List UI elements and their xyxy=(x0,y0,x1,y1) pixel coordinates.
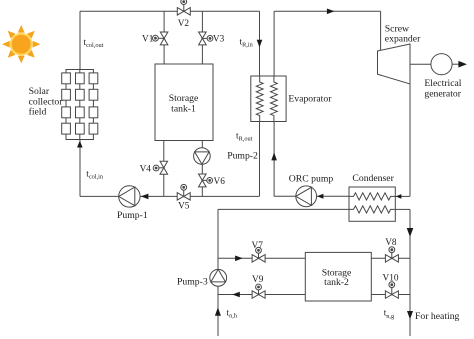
svg-text:For heating: For heating xyxy=(415,311,460,322)
electrical generator xyxy=(431,54,452,75)
collector header xyxy=(66,70,93,73)
svg-text:field: field xyxy=(29,107,47,118)
wire V1 branch xyxy=(163,11,165,64)
wire V10 line xyxy=(371,294,410,296)
svg-text:tank-2: tank-2 xyxy=(324,277,349,288)
pump-2 xyxy=(194,148,211,165)
wire collector return t_col,in xyxy=(79,140,81,197)
wire V4 drop xyxy=(163,141,165,197)
valve V7 xyxy=(252,247,265,262)
svg-text:tank-1: tank-1 xyxy=(171,103,196,114)
sun xyxy=(2,25,40,63)
wire collector riser t_col,out xyxy=(79,11,81,69)
svg-text:Condenser: Condenser xyxy=(352,173,394,184)
valve V9 xyxy=(252,284,265,298)
wire ORC pump line xyxy=(274,195,349,197)
svg-text:Pump-2: Pump-2 xyxy=(227,150,258,161)
condenser coil top xyxy=(349,193,395,200)
wire condenser bottom right stub xyxy=(395,208,410,210)
wire evaporator ORC vertical xyxy=(273,11,275,196)
pump-3 xyxy=(210,269,227,286)
svg-text:Storage: Storage xyxy=(169,93,199,104)
wire expander inlet xyxy=(380,11,382,50)
arrow flow up t_n,h xyxy=(215,307,221,315)
svg-text:V1: V1 xyxy=(142,35,154,45)
wire generator output xyxy=(452,63,460,65)
condenser box xyxy=(349,187,395,221)
svg-text:Pump-3: Pump-3 xyxy=(177,276,208,287)
svg-text:V6: V6 xyxy=(214,177,226,187)
collector footer xyxy=(66,134,93,139)
svg-text:Pump-1: Pump-1 xyxy=(117,210,148,221)
arrow flow up evaporator ORC line xyxy=(271,152,277,160)
valve V3 xyxy=(199,32,213,45)
svg-text:V2: V2 xyxy=(178,19,190,29)
valve V4 xyxy=(153,161,167,174)
wire water left vertical xyxy=(217,209,219,336)
wire ORC top line xyxy=(274,10,381,12)
arrow flow right on V7 line xyxy=(235,256,243,262)
condenser coil bottom xyxy=(349,206,395,213)
evaporator box xyxy=(251,76,286,122)
ORC pump xyxy=(296,186,317,207)
wire V9 line xyxy=(218,294,305,296)
wire top solar header xyxy=(80,10,260,12)
arrow generator output xyxy=(458,61,467,68)
arrow flow up into collector xyxy=(77,141,83,148)
arrow flow right on ORC top line xyxy=(327,9,335,15)
valve V5 xyxy=(177,184,190,200)
wire V3 branch xyxy=(201,11,203,64)
wire expander outlet to condenser xyxy=(409,84,411,197)
svg-text:ORC pump: ORC pump xyxy=(289,173,334,184)
storage tank-1 xyxy=(155,64,213,141)
arrow flow left on V9 line xyxy=(232,292,240,298)
arrow flow left into pump-1 xyxy=(141,194,149,200)
storage tank-2 xyxy=(305,252,371,301)
pump-1 xyxy=(119,186,140,207)
valve V10 xyxy=(385,282,398,298)
solar collector field panels xyxy=(62,73,98,134)
svg-text:Evaporator: Evaporator xyxy=(288,94,332,105)
wire water right vertical xyxy=(409,209,411,336)
collector column joins xyxy=(66,84,93,123)
wire generator shaft xyxy=(410,63,431,65)
screw expander xyxy=(378,44,411,84)
arrow flow down evaporator inlet xyxy=(257,40,263,48)
arrow flow left into ORC pump xyxy=(317,194,323,199)
evaporator coil right xyxy=(271,76,278,122)
arrow flow left into condenser xyxy=(396,194,402,199)
svg-text:generator: generator xyxy=(424,88,461,99)
svg-text:Solar: Solar xyxy=(29,86,50,97)
svg-text:Electrical: Electrical xyxy=(424,78,461,89)
wire condenser top right stub xyxy=(395,195,410,197)
wire solar bottom return xyxy=(80,195,260,197)
valve V2 xyxy=(177,0,190,15)
wire pump2 drop xyxy=(201,141,203,197)
wire V7 line xyxy=(218,257,305,259)
valve V1 xyxy=(153,32,168,45)
wire V8 line xyxy=(371,257,410,259)
evaporator coil left xyxy=(256,76,263,122)
svg-text:V9: V9 xyxy=(252,275,264,285)
wire evaporator hot inlet xyxy=(259,11,261,196)
valve V8 xyxy=(385,247,398,262)
svg-text:expander: expander xyxy=(385,34,421,45)
svg-text:V3: V3 xyxy=(213,35,225,45)
arrow flow down t_n,g xyxy=(407,311,413,319)
svg-text:V8: V8 xyxy=(385,238,397,248)
svg-text:V4: V4 xyxy=(140,165,152,175)
valve V6 xyxy=(199,174,213,187)
wire condenser bottom left xyxy=(218,208,349,210)
svg-text:V5: V5 xyxy=(178,202,190,212)
svg-text:V7: V7 xyxy=(252,241,264,251)
svg-text:V10: V10 xyxy=(383,274,399,284)
arrow flow down below condenser xyxy=(407,228,414,237)
